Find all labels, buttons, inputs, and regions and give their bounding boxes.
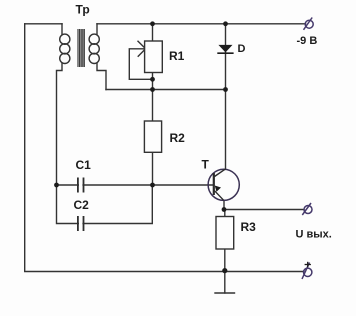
svg-text:C1: C1 xyxy=(76,158,92,172)
svg-text:R3: R3 xyxy=(241,220,257,234)
svg-text:-9 В: -9 В xyxy=(297,35,318,47)
svg-text:Тр: Тр xyxy=(76,3,90,17)
svg-text:U вых.: U вых. xyxy=(296,229,332,241)
svg-text:R1: R1 xyxy=(169,49,185,63)
svg-text:R2: R2 xyxy=(170,131,186,145)
svg-text:C2: C2 xyxy=(74,198,90,212)
svg-text:D: D xyxy=(238,43,246,55)
svg-text:T: T xyxy=(202,158,210,172)
